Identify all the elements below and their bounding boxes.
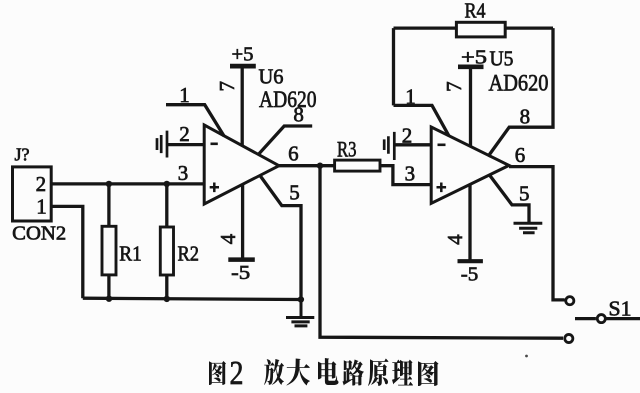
op-amp U6 pin 8 stub — [259, 126, 313, 154]
junction dot R2 bottom — [164, 296, 170, 302]
svg-text:-5: -5 — [231, 262, 250, 284]
junction dot R1 top — [106, 181, 112, 187]
svg-text:CON2: CON2 — [12, 223, 66, 245]
svg-text:4: 4 — [216, 233, 240, 244]
svg-text:+5: +5 — [461, 46, 487, 68]
svg-text:7: 7 — [442, 81, 466, 92]
wire: ground bus — [83, 298, 301, 299]
wire: R3 to U5 pin 3 — [380, 166, 432, 185]
op-amp U5 triangle — [431, 127, 509, 203]
svg-text:4: 4 — [443, 234, 467, 245]
svg-text:6: 6 — [515, 143, 526, 167]
switch S1 blade — [575, 317, 596, 320]
op-amp U5 pin 4 supply stem — [468, 184, 471, 261]
svg-text:AD620: AD620 — [259, 87, 317, 112]
svg-text:AD620: AD620 — [489, 71, 549, 96]
wire: U5 pin 8 to feedback right leg — [488, 28, 553, 156]
resistor R2 leads — [165, 184, 168, 299]
op-amp U6 pin 1 stub — [166, 105, 224, 136]
scan speck — [525, 355, 528, 358]
caption character 路 — [343, 360, 365, 386]
U5 +5 supply bar — [458, 65, 484, 70]
op-amp U6 pin 4 supply stem — [241, 185, 244, 259]
svg-text:5: 5 — [289, 181, 300, 205]
wire: U6 output node down and right to switch contact — [320, 166, 563, 339]
wire: connector pin1 down to ground bus — [53, 206, 83, 298]
svg-text:R4: R4 — [465, 0, 486, 23]
svg-text:J?: J? — [15, 145, 30, 165]
svg-text:3: 3 — [178, 161, 189, 185]
switch S1 pole circle — [597, 315, 605, 323]
U6 -5 supply bar — [228, 257, 255, 262]
wire: feedback left leg and U5 pin 1 — [394, 28, 450, 136]
caption character 大 — [287, 359, 311, 386]
wire: R4 feedback top right segment — [505, 26, 553, 29]
svg-text:U6: U6 — [259, 65, 284, 89]
op-amp U6 plus sign — [210, 183, 219, 193]
svg-text:R2: R2 — [178, 241, 200, 265]
wire: switch pole to right edge — [605, 317, 640, 320]
connector J? box (CON2) — [13, 167, 52, 221]
svg-text:5: 5 — [519, 182, 530, 206]
wire: R4 feedback top left segment — [394, 26, 457, 29]
junction dot R1 bottom — [106, 296, 112, 302]
junction dot R2 top — [164, 181, 170, 187]
caption character 图 — [418, 361, 439, 386]
resistor R3 body — [335, 160, 380, 171]
op-amp U6 triangle — [204, 125, 279, 204]
svg-text:U5: U5 — [490, 46, 514, 70]
svg-text:1: 1 — [179, 83, 190, 107]
svg-text:1: 1 — [36, 194, 47, 218]
ground symbol at bus — [286, 300, 314, 326]
svg-text:R3: R3 — [337, 137, 357, 162]
caption character 电 — [318, 358, 339, 385]
op-amp U5 pin 7 supply stem — [469, 66, 472, 146]
wire: U6 pin 6 output to R3 — [279, 164, 335, 167]
svg-text:8: 8 — [520, 105, 531, 129]
resistor R1 body — [102, 226, 116, 275]
svg-text:2: 2 — [230, 355, 244, 392]
svg-text:1: 1 — [405, 84, 416, 108]
resistor R4 body — [456, 22, 505, 37]
junction dot U6 output node — [317, 163, 323, 169]
svg-text:2: 2 — [402, 124, 413, 148]
switch S1 top contact circle — [566, 297, 574, 305]
wire: U5 pin 5 to ground — [490, 175, 530, 222]
wire: U5 pin 2 to ground — [395, 143, 431, 146]
op-amp U5 minus sign — [438, 144, 446, 147]
ground symbol at U5 pin 2 — [384, 132, 394, 160]
svg-text:R1: R1 — [119, 241, 142, 265]
U5 -5 supply bar — [458, 259, 483, 263]
caption character 图 — [209, 361, 226, 385]
svg-text:6: 6 — [288, 141, 299, 165]
svg-text:7: 7 — [215, 81, 239, 92]
junction dot at ground bus — [298, 296, 304, 302]
svg-text:S1: S1 — [609, 297, 632, 321]
svg-text:2: 2 — [179, 122, 190, 146]
switch S1 bottom contact circle — [565, 334, 573, 342]
op-amp U6 minus sign — [211, 143, 218, 146]
wire: U6 pin 2 to ground — [167, 143, 205, 146]
ground symbol at U5 pin 5 — [514, 223, 543, 232]
op-amp U6 pin 7 supply stem — [241, 66, 244, 146]
svg-text:3: 3 — [405, 162, 416, 186]
ground symbol at U6 pin 2 — [157, 131, 167, 158]
caption character 原 — [368, 359, 389, 387]
svg-text:-5: -5 — [461, 263, 479, 285]
U6 +5 supply bar — [230, 64, 256, 69]
resistor R1 leads — [107, 184, 110, 299]
svg-text:+5: +5 — [232, 44, 254, 66]
svg-text:2: 2 — [36, 172, 47, 196]
op-amp U5 plus sign — [437, 183, 447, 193]
wire: U5 pin 6 output to switch top contact — [509, 167, 565, 300]
caption character 放 — [264, 359, 284, 385]
wire: U6 pin 5 to ground bus — [260, 176, 301, 300]
wire: connector pin2 to U6 pin3 (input net) — [53, 182, 205, 185]
caption character 理 — [392, 360, 413, 386]
resistor R2 body — [160, 227, 173, 275]
